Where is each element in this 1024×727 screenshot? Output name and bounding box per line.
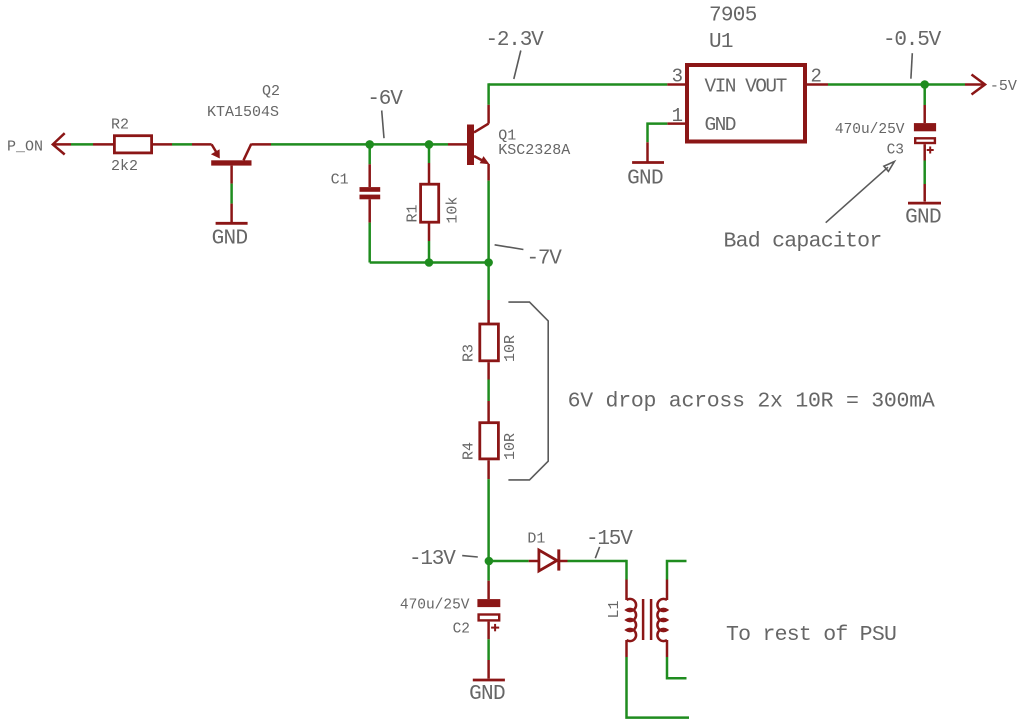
wire P_ON to R2 bbox=[71, 143, 93, 146]
transistor Q1 bbox=[448, 143, 467, 146]
svg-text:-5V: -5V bbox=[990, 78, 1017, 95]
diode D1 bbox=[539, 550, 557, 571]
leader -13V bbox=[462, 556, 478, 557]
capacitor C3 bbox=[923, 85, 926, 106]
leader -6V bbox=[382, 111, 384, 139]
svg-text:-0.5V: -0.5V bbox=[883, 29, 942, 52]
transformer core bbox=[642, 599, 645, 640]
P_ON arrow bbox=[53, 133, 65, 154]
svg-text:6V drop across 2x 10R = 300mA: 6V drop across 2x 10R = 300mA bbox=[568, 389, 935, 413]
wire Q1 emitter down to -7V node bbox=[487, 181, 490, 263]
wire Q2 to Q1 base bbox=[271, 143, 448, 146]
svg-text:470u/25V: 470u/25V bbox=[400, 597, 470, 613]
capacitor C2 bbox=[487, 561, 490, 581]
svg-text:GND: GND bbox=[212, 227, 248, 250]
annotation arrow to C3 bbox=[826, 167, 888, 223]
wire bottom of C1/R1 to -7V node bbox=[370, 261, 489, 264]
wire R3 to R4 bbox=[487, 362, 490, 379]
svg-text:KTA1504S: KTA1504S bbox=[207, 104, 279, 121]
ground under U1 bbox=[632, 161, 664, 164]
wire -2.3V net to U1 VIN bbox=[489, 83, 668, 86]
svg-text:R2: R2 bbox=[111, 117, 129, 134]
svg-text:470u/25V: 470u/25V bbox=[835, 122, 905, 138]
svg-text:10R: 10R bbox=[502, 433, 519, 460]
secondary top lead bbox=[666, 580, 669, 601]
junction -7V node bbox=[484, 258, 493, 267]
capacitor C1 bbox=[368, 144, 371, 164]
junction at R1 top bbox=[425, 140, 434, 149]
svg-text:10k: 10k bbox=[445, 197, 462, 224]
junction -0.5V node bbox=[920, 80, 929, 89]
svg-text:7905: 7905 bbox=[709, 5, 757, 28]
svg-text:2k2: 2k2 bbox=[111, 158, 138, 175]
svg-text:-13V: -13V bbox=[409, 548, 456, 571]
ground under C2 bbox=[473, 679, 505, 682]
svg-text:U1: U1 bbox=[709, 31, 733, 54]
bracket annotation bbox=[508, 302, 548, 480]
svg-text:R3: R3 bbox=[461, 344, 478, 362]
svg-text:C2: C2 bbox=[453, 621, 470, 637]
wire U1 pin1 to ground bbox=[667, 122, 686, 125]
svg-text:GND: GND bbox=[705, 114, 736, 136]
svg-text:To rest of PSU: To rest of PSU bbox=[726, 623, 896, 647]
junction -13V node bbox=[485, 557, 494, 566]
secondary bottom lead bbox=[666, 640, 669, 657]
svg-text:10R: 10R bbox=[502, 335, 519, 362]
leader -7V bbox=[495, 245, 524, 250]
IC U1 7905 bbox=[687, 65, 805, 142]
wire Q2 base to GND bbox=[230, 184, 233, 204]
svg-text:P_ON: P_ON bbox=[7, 139, 43, 156]
svg-text:-15V: -15V bbox=[586, 528, 633, 551]
wire R2 to Q2 bbox=[153, 143, 172, 146]
svg-text:-6V: -6V bbox=[367, 88, 403, 111]
svg-text:C3: C3 bbox=[887, 143, 904, 159]
svg-text:Bad capacitor: Bad capacitor bbox=[724, 229, 882, 253]
leader -0.5V bbox=[911, 53, 912, 78]
junction R1 bottom bbox=[425, 258, 434, 267]
svg-text:R4: R4 bbox=[461, 442, 478, 460]
wire R4 down to -13V node bbox=[487, 460, 490, 479]
wire U1 pin2 to -5V bbox=[806, 83, 828, 86]
svg-text:-2.3V: -2.3V bbox=[486, 29, 545, 52]
svg-text:D1: D1 bbox=[527, 531, 545, 548]
resistor R4 bbox=[480, 423, 499, 459]
svg-text:C1: C1 bbox=[331, 172, 349, 189]
resistor R1 bbox=[428, 144, 431, 163]
resistor R2 bbox=[114, 136, 151, 153]
leader -2.3V bbox=[514, 51, 521, 80]
-5V arrow bbox=[965, 83, 985, 86]
junction at -6V node bbox=[365, 140, 374, 149]
svg-text:L1: L1 bbox=[606, 600, 623, 618]
primary bottom lead bbox=[625, 640, 628, 657]
svg-text:R1: R1 bbox=[405, 204, 422, 222]
wire -7V node down to R3 bbox=[487, 263, 490, 301]
svg-text:VIN VOUT: VIN VOUT bbox=[705, 76, 787, 98]
svg-text:GND: GND bbox=[905, 207, 941, 230]
svg-text:GND: GND bbox=[469, 683, 505, 706]
svg-text:Q2: Q2 bbox=[262, 83, 280, 100]
svg-text:-7V: -7V bbox=[527, 247, 563, 270]
wire -13V node to D1 bbox=[489, 560, 529, 563]
svg-text:GND: GND bbox=[627, 168, 663, 191]
wire D1 to transformer bbox=[568, 560, 627, 563]
wire Q1 collector up bbox=[487, 83, 490, 104]
svg-text:KSC2328A: KSC2328A bbox=[498, 142, 570, 159]
svg-text:3: 3 bbox=[672, 66, 683, 88]
transistor Q2 bbox=[192, 143, 212, 146]
wire down to L1 primary bbox=[625, 560, 628, 580]
ground under C3 bbox=[908, 202, 941, 205]
ground under Q2 bbox=[216, 222, 248, 225]
transformer L1 secondary winding bbox=[657, 599, 667, 641]
leader -15V bbox=[595, 547, 599, 558]
resistor R3 bbox=[480, 324, 499, 361]
transformer L1 primary winding bbox=[627, 599, 637, 641]
